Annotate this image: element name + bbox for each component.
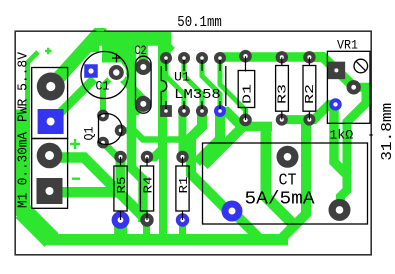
wire U1 pin8 to pin2 zigzag xyxy=(166,58,184,111)
capacitor C1 plus mark xyxy=(112,54,121,63)
wire R2 bottom through CT to ground rail xyxy=(283,121,306,237)
pad P2 terminal blue square xyxy=(38,109,64,134)
wire U1 pin1 down to ground rail xyxy=(159,113,167,240)
svg-text:31.8mm: 31.8mm xyxy=(380,103,395,161)
pad C2 top xyxy=(135,59,151,75)
board outline xyxy=(15,31,371,255)
wire stub band to C1 blue pad xyxy=(86,43,99,52)
wire Q1 right pad horizontal xyxy=(121,131,192,140)
wire stub band to C2 top pad xyxy=(139,44,148,66)
pad P4 terminal square xyxy=(37,178,63,204)
lead R4 bottom xyxy=(146,211,148,220)
op-amp U1 outline with notch xyxy=(161,66,226,106)
current transformer CT outline xyxy=(203,143,368,224)
node + mark top left xyxy=(45,48,52,54)
pad P3 terminal xyxy=(37,143,63,169)
wire U1 pin2 down to R1 top xyxy=(179,111,187,157)
pad R1 top xyxy=(176,151,188,163)
pad C1 minus donut xyxy=(109,65,124,80)
pad D1 bottom xyxy=(239,114,252,127)
pad P1 terminal top xyxy=(37,73,65,101)
resistor R1 outline xyxy=(176,166,189,211)
pad CT left blue xyxy=(222,201,243,222)
lead R5 bottom xyxy=(120,211,122,220)
pad C1 blue square xyxy=(84,64,98,78)
pad R1 bottom blue xyxy=(176,213,189,226)
lead R1 bottom xyxy=(182,211,184,220)
wire bottom rail D1 R3 R2 xyxy=(220,112,272,127)
lead lines xyxy=(121,56,310,220)
svg-text:R4: R4 xyxy=(141,177,155,194)
pad R4 bottom xyxy=(140,213,153,226)
wire bottom rail to CT right donut xyxy=(266,122,295,226)
svg-text:C2: C2 xyxy=(135,44,147,58)
lead D1 top xyxy=(245,56,247,71)
svg-text:Q1: Q1 xyxy=(82,127,96,141)
svg-text:1kΩ: 1kΩ xyxy=(329,127,353,142)
wire U1 pin5 to D1 bottom zigzag xyxy=(220,58,246,120)
pad U1 pin5 xyxy=(214,52,226,64)
wire VR1 wiper to CT right donut xyxy=(340,87,366,209)
svg-text:PWR 5..8V: PWR 5..8V xyxy=(16,51,32,122)
resistor R5 outline xyxy=(114,166,127,211)
wire P4 horizontal to R5 vertical xyxy=(50,187,117,198)
svg-text:R3: R3 xyxy=(276,84,290,104)
wire CT blue pad to bottom rail xyxy=(232,211,259,238)
wire ground corner chamfer xyxy=(23,211,52,240)
pad U1 pin2 xyxy=(178,105,190,117)
pad Q1 top xyxy=(97,110,109,122)
svg-text:R5: R5 xyxy=(115,177,129,194)
node - mark terminal minus xyxy=(72,177,80,179)
wire R1 bottom stub xyxy=(179,217,186,240)
pad C1 clearance ring xyxy=(106,63,126,83)
pad U1 pin6 xyxy=(196,52,208,64)
resistor R2 outline xyxy=(303,66,316,112)
wire band into U1 pin8 xyxy=(166,45,172,59)
wire P3 to R4 bottom long diagonal xyxy=(50,158,146,220)
wire top band along board edge xyxy=(96,31,171,46)
pad U1 pin3 xyxy=(196,105,208,117)
lead R3 bottom xyxy=(281,111,283,119)
pad U1 pin1 square xyxy=(160,105,172,117)
wire R4 bottom stub to rail xyxy=(143,220,150,240)
pad U1 pin7 xyxy=(178,52,190,64)
capacitor C2 outline xyxy=(136,56,152,113)
wire diagonal tip over outline xyxy=(97,28,105,31)
wire left ground wide vertical xyxy=(15,110,30,217)
terminal block top box xyxy=(32,68,68,139)
svg-text:VR1: VR1 xyxy=(337,38,358,52)
pad U1 pin4 blue via xyxy=(214,105,226,117)
svg-text:C1: C1 xyxy=(96,80,110,94)
lead R1 top xyxy=(182,157,184,166)
lead U1 bottom pins xyxy=(166,101,220,109)
wire band rail down to R4 top xyxy=(147,44,163,157)
pad R5 top xyxy=(114,151,126,163)
lead R3 top xyxy=(281,57,283,65)
transistor Q1 outline xyxy=(99,113,122,144)
pad VR1 pin3 blue xyxy=(329,98,341,110)
svg-text:U1: U1 xyxy=(174,71,190,85)
wire Q1 bottom pad to R5 top xyxy=(103,143,121,157)
wire C1 donut to C2 bottom pad xyxy=(116,73,143,104)
wire rail to VR1 blue donut diagonal xyxy=(282,104,336,119)
svg-text:50.1mm: 50.1mm xyxy=(177,15,222,31)
svg-text:D1: D1 xyxy=(241,84,255,104)
pad Q1 bottom xyxy=(97,137,109,149)
wire VR1 blue stub down xyxy=(334,104,348,175)
pad R3 bottom xyxy=(276,114,288,126)
wire band widening over C1 top right xyxy=(102,44,135,62)
lead R2 top xyxy=(308,57,310,65)
wire band bump above edge xyxy=(95,28,107,31)
wire C1 donut down to Q1 top pad xyxy=(103,73,116,116)
pad R2 top xyxy=(303,51,315,63)
svg-text:M1 0..30mA: M1 0..30mA xyxy=(16,131,32,208)
pad Q1 right xyxy=(115,124,127,136)
pad CT top xyxy=(277,146,299,168)
svg-text:LM358: LM358 xyxy=(174,88,221,103)
wire U1 pin6 to pin4 zigzag xyxy=(202,58,220,111)
wire C1 blue pad to P2 blue square diagonal xyxy=(60,79,94,113)
wire left ground thin vertical xyxy=(28,52,39,110)
wire C2 bottom jog into band vertical xyxy=(132,104,144,111)
capacitor C1 circle xyxy=(81,52,128,99)
dimension tick xyxy=(369,134,372,136)
svg-text:R1: R1 xyxy=(177,177,191,194)
lead D1 bottom xyxy=(245,108,247,120)
VR1 screw head xyxy=(354,59,368,73)
wire top rail pin5 to D1 to R3 to R2 xyxy=(220,52,309,62)
wire rail diagonal through VR1 square pad to wiper xyxy=(309,57,353,87)
potentiometer VR1 outline xyxy=(327,51,370,123)
lead R2 bottom xyxy=(308,111,310,119)
wire P1 power diagonal xyxy=(51,32,100,87)
svg-text:5A/5mA: 5A/5mA xyxy=(245,189,316,210)
svg-text:R2: R2 xyxy=(303,84,317,104)
resistor R4 outline xyxy=(140,166,153,211)
pad R5 bottom blue xyxy=(112,211,130,229)
lead R5 top xyxy=(120,157,122,166)
pad CT right xyxy=(329,199,351,221)
wire U1 pin3 down to CT blue pad xyxy=(191,111,232,212)
node + mark terminal plus xyxy=(70,139,80,149)
pad R3 top xyxy=(276,51,288,63)
wire U1 pin4 blue pad down diagonal xyxy=(197,111,221,163)
pad VR1 wiper xyxy=(347,80,361,94)
pad D1 top xyxy=(239,50,252,63)
pad R2 bottom xyxy=(303,114,315,126)
wire ground bottom rail xyxy=(45,234,288,245)
diode D1 outline xyxy=(238,71,255,108)
resistor R3 outline xyxy=(276,66,289,112)
pad R4 top xyxy=(141,151,153,163)
wire U1 pin7 to pin3 zigzag xyxy=(184,58,202,111)
pad VR1 pin1 square xyxy=(328,62,346,80)
pad C2 bottom xyxy=(135,96,151,112)
pad U1 pin8 xyxy=(160,52,172,64)
wire band down between C1 and C2 through Q1 node to R4 bottom xyxy=(132,44,144,222)
lead U1 top pins xyxy=(166,60,220,71)
wire R5 vertical to ground rail xyxy=(116,153,126,197)
terminal block bottom box xyxy=(32,139,68,209)
wire R5 blue pad stub to rail xyxy=(114,226,127,240)
wire D1 bottom diagonal down-left xyxy=(204,120,246,166)
lead R4 top xyxy=(146,157,148,166)
green polarity labels xyxy=(45,48,80,179)
